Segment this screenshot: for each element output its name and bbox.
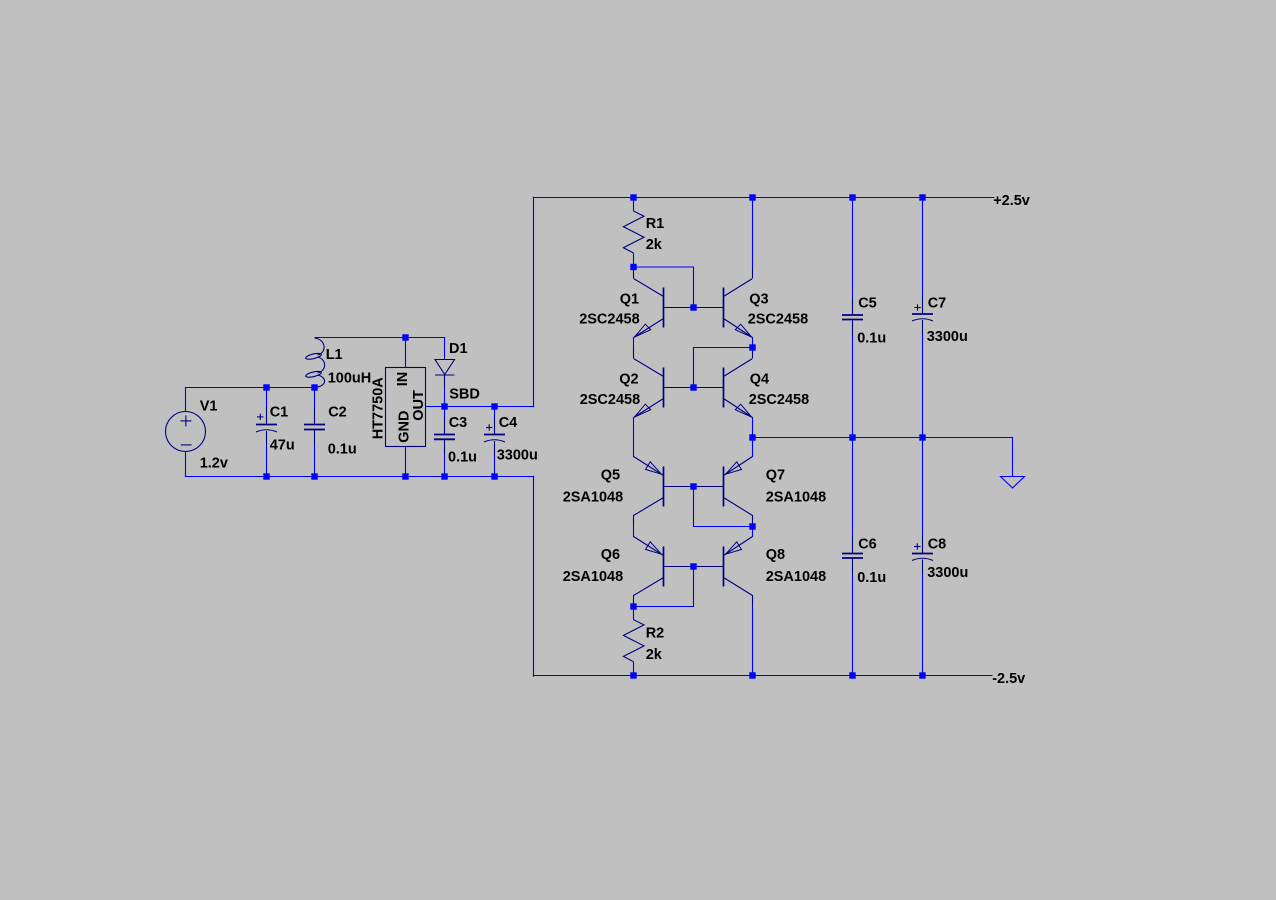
svg-text:Q4: Q4	[750, 371, 769, 387]
junction node (922,197)	[919, 194, 925, 200]
junction node (752,197)	[749, 194, 755, 200]
svg-text:C5: C5	[858, 295, 877, 311]
svg-text:HT7750A: HT7750A	[371, 377, 387, 440]
junction node (752,347)	[749, 344, 755, 350]
capacitor C1	[256, 388, 277, 477]
svg-text:47u: 47u	[270, 437, 295, 453]
svg-text:C8: C8	[928, 536, 947, 552]
svg-text:R1: R1	[646, 216, 665, 232]
junction node (444,476)	[441, 473, 447, 479]
wire	[752, 607, 754, 676]
junction node (922,675)	[919, 672, 925, 678]
junction node (752,437)	[749, 434, 755, 440]
svg-text:3300u: 3300u	[927, 329, 968, 345]
svg-text:0.1u: 0.1u	[448, 449, 477, 465]
junction node (494,476)	[491, 473, 497, 479]
svg-text:L1: L1	[326, 347, 343, 363]
svg-text:IN: IN	[395, 372, 411, 387]
junction node (633,266.5)	[630, 264, 636, 270]
svg-text:C1: C1	[270, 404, 289, 420]
svg-text:2SA1048: 2SA1048	[563, 569, 623, 585]
transistor Q6	[634, 537, 694, 607]
junction node (693,387)	[690, 384, 696, 390]
junction node (405,476)	[402, 473, 408, 479]
svg-text:Q7: Q7	[766, 467, 785, 483]
svg-text:2SA1048: 2SA1048	[766, 569, 826, 585]
wire	[633, 417, 635, 457]
svg-text:2SC2458: 2SC2458	[580, 392, 640, 408]
transistor Q3	[694, 268, 753, 338]
diode D1	[435, 360, 455, 376]
capacitor C3	[434, 407, 455, 477]
junction node (852,675)	[849, 672, 855, 678]
junction node (266,476)	[263, 473, 269, 479]
svg-text:C3: C3	[449, 415, 468, 431]
junction node (752,675)	[749, 672, 755, 678]
svg-text:C2: C2	[328, 404, 347, 420]
svg-text:Q5: Q5	[601, 467, 620, 483]
svg-text:2k: 2k	[646, 237, 663, 253]
svg-text:C4: C4	[499, 415, 518, 431]
svg-text:0.1u: 0.1u	[328, 441, 357, 457]
svg-text:0.1u: 0.1u	[857, 570, 886, 586]
svg-text:2SC2458: 2SC2458	[749, 392, 809, 408]
transistor Q5	[634, 457, 694, 527]
wire	[533, 675, 993, 677]
wire	[752, 337, 754, 348]
svg-text:Q8: Q8	[766, 547, 785, 563]
capacitor C2	[304, 388, 325, 477]
capacitor C7	[912, 198, 933, 438]
svg-text:GND: GND	[397, 411, 413, 443]
transistor Q8	[694, 537, 753, 607]
svg-text:-2.5v: -2.5v	[992, 671, 1025, 687]
capacitor C4	[484, 407, 505, 477]
junction node (852,437)	[849, 434, 855, 440]
svg-text:R2: R2	[646, 625, 665, 641]
svg-text:1.2v: 1.2v	[200, 455, 228, 471]
wire	[533, 197, 995, 199]
svg-text:2SA1048: 2SA1048	[563, 489, 623, 505]
svg-text:2k: 2k	[646, 647, 663, 663]
wire	[426, 406, 535, 408]
junction node (494,406)	[491, 403, 497, 409]
junction node (693,566)	[690, 563, 696, 569]
wire	[315, 338, 445, 357]
svg-text:SBD: SBD	[449, 386, 480, 402]
voltage source V1	[166, 388, 206, 477]
resistor R1	[623, 198, 644, 268]
wire	[634, 267, 694, 308]
svg-text:V1: V1	[200, 398, 218, 414]
transistor Q7	[694, 457, 753, 527]
junction node (633,606)	[630, 603, 636, 609]
junction node (444,406)	[441, 403, 447, 409]
wire	[185, 387, 315, 389]
wire	[533, 197, 535, 407]
svg-text:Q1: Q1	[620, 291, 639, 307]
svg-text:D1: D1	[449, 341, 468, 357]
junction node (633,675)	[630, 672, 636, 678]
wire	[633, 526, 635, 537]
wire	[752, 417, 754, 457]
wire	[185, 476, 534, 478]
wire	[405, 338, 407, 368]
junction node (266,387)	[263, 384, 269, 390]
svg-text:3300u: 3300u	[927, 565, 968, 581]
wire	[405, 447, 407, 477]
wire	[633, 337, 635, 348]
svg-text:2SC2458: 2SC2458	[579, 311, 639, 327]
wire	[444, 375, 446, 387]
svg-text:3300u: 3300u	[497, 447, 538, 463]
svg-text:C7: C7	[928, 295, 947, 311]
svg-text:2SA1048: 2SA1048	[766, 489, 826, 505]
junction node (314,476)	[311, 473, 317, 479]
wire	[533, 476, 535, 677]
svg-text:100uH: 100uH	[328, 370, 372, 386]
regulator U1 HT7750A	[386, 368, 426, 447]
svg-text:+2.5v: +2.5v	[993, 193, 1030, 209]
svg-text:C6: C6	[858, 536, 877, 552]
junction node (314,387)	[311, 384, 317, 390]
wire	[694, 487, 753, 527]
junction node (405,337)	[402, 334, 408, 340]
wire	[1012, 437, 1014, 477]
ground	[1001, 477, 1025, 489]
transistor Q4	[694, 348, 753, 418]
transistor Q2	[634, 348, 694, 418]
wire	[753, 437, 1013, 439]
junction node (693,307)	[690, 304, 696, 310]
wire	[694, 348, 753, 388]
capacitor C6	[842, 438, 863, 676]
transistor Q1	[634, 268, 694, 338]
svg-text:Q2: Q2	[619, 371, 638, 387]
resistor R2	[623, 607, 644, 676]
inductor L1	[305, 338, 324, 388]
svg-text:OUT: OUT	[411, 390, 427, 421]
wire	[634, 567, 694, 607]
junction node (633,197)	[630, 194, 636, 200]
junction node (852,197)	[849, 194, 855, 200]
junction node (922,437)	[919, 434, 925, 440]
junction node (752,526)	[749, 523, 755, 529]
wire	[752, 198, 754, 268]
junction node (693,486)	[690, 483, 696, 489]
svg-text:0.1u: 0.1u	[857, 330, 886, 346]
capacitor C8	[912, 438, 933, 676]
svg-text:Q6: Q6	[601, 547, 620, 563]
svg-text:2SC2458: 2SC2458	[748, 311, 808, 327]
capacitor C5	[842, 198, 863, 438]
svg-text:Q3: Q3	[749, 291, 768, 307]
wire	[752, 526, 754, 537]
